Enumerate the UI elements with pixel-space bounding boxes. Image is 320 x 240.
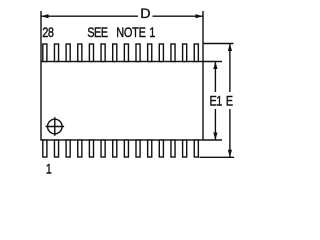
svg-text:NOTE: NOTE [116,25,145,40]
extension line right (D) [202,11,204,62]
package body [41,62,203,141]
top pin row [43,44,199,62]
extension line E1 bottom [203,139,222,141]
dimension line E1 [213,62,217,141]
bottom pin row [43,140,199,157]
svg-text:1: 1 [46,161,52,176]
svg-text:D: D [140,5,150,21]
svg-text:SEE: SEE [87,25,108,40]
pin 1 indicator [46,117,65,136]
extension line E top [203,43,234,45]
extension line E bottom [200,156,235,158]
svg-text:28: 28 [42,25,54,40]
note text SEE NOTE 1 [87,25,155,40]
svg-text:E: E [226,93,233,108]
extension line left (D) [40,11,42,62]
svg-text:E1: E1 [210,93,223,108]
dimension line E [228,44,232,158]
extension line E1 top [203,61,222,63]
dimension line D [41,14,203,18]
svg-text:1: 1 [149,25,155,40]
